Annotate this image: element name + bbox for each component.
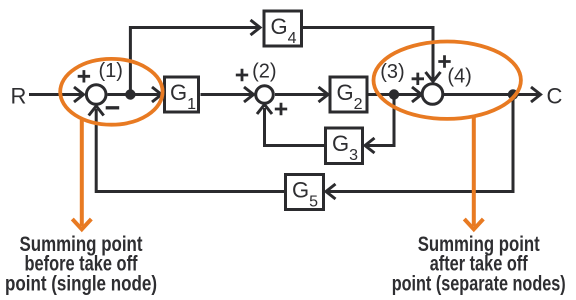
wire G3 output left and up into summing point 2: [257, 105, 324, 146]
block G5: [286, 175, 324, 210]
svg-text:C: C: [547, 83, 563, 108]
wire summing point 2 to block G2: [275, 87, 328, 102]
minus sign at summing point 1 feedback input: [106, 106, 120, 109]
svg-text:point (separate nodes): point (separate nodes): [392, 271, 566, 295]
svg-text:(2): (2): [252, 61, 276, 83]
svg-text:(4): (4): [447, 66, 471, 88]
svg-text:(3): (3): [380, 61, 404, 83]
svg-text:R: R: [11, 84, 27, 109]
plus sign at summing point 4 left input: [412, 73, 424, 85]
block G4: [264, 11, 302, 46]
block G2: [330, 77, 367, 112]
wire G1 to summing point 2: [201, 87, 254, 102]
summing point 2 circle: [256, 86, 274, 104]
orange callout arrow right: [464, 118, 483, 230]
plus sign at summing point 4 top input: [438, 55, 450, 67]
node A takeoff after summing point 1: [125, 89, 135, 99]
summing point 4 circle: [422, 84, 443, 105]
wire G4 output right and down into summing point 4: [303, 28, 441, 82]
wire node C down and left into G5: [326, 95, 513, 200]
wire node A up and right to G4: [130, 20, 260, 95]
wire summing point 4 to output C: [444, 87, 541, 102]
orange ellipse around node 3 and summing point 4 (separate nodes): [374, 41, 521, 118]
plus sign at summing point 2 feedback input: [275, 103, 287, 115]
block G1: [165, 77, 199, 112]
svg-text:point (single node): point (single node): [5, 271, 157, 295]
caption left: summing point before take off point: [5, 232, 157, 295]
wire R input to summing point 1: [29, 87, 84, 102]
wire summing point 1 to block G1: [108, 87, 162, 102]
orange ellipse around summing point 1 (single node): [60, 59, 162, 125]
svg-text:(1): (1): [98, 60, 122, 82]
node 3 takeoff dot: [389, 89, 399, 99]
wire G2 to summing point 4: [369, 87, 422, 102]
orange callout arrow left: [72, 120, 91, 229]
plus sign at summing point 2 input: [236, 69, 248, 81]
block G3: [326, 128, 363, 164]
caption right: summing point after take off point: [392, 232, 566, 295]
wire G5 output left and up into summing point 1: [89, 106, 285, 192]
wire node 3 down and left into G3: [365, 95, 394, 154]
node C takeoff dot: [508, 89, 518, 99]
plus sign at summing point 1 input: [78, 70, 90, 82]
summing point 1 circle: [86, 85, 106, 105]
